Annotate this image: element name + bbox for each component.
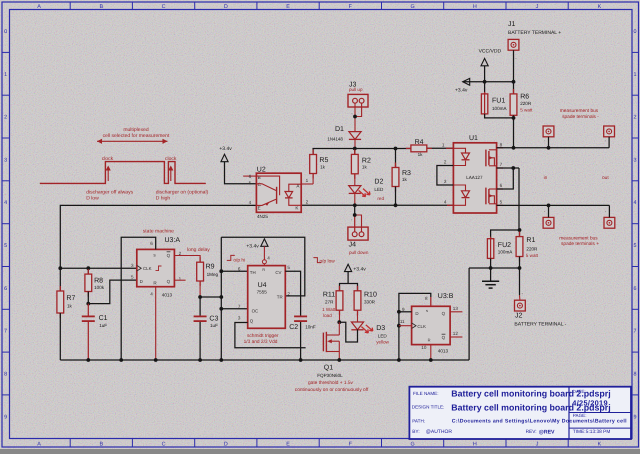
resistor R4	[406, 147, 411, 149]
svg-text:100mA: 100mA	[492, 106, 507, 111]
clock waveform	[40, 162, 206, 184]
svg-text:Q: Q	[442, 311, 446, 316]
svg-text:3: 3	[634, 157, 637, 163]
resistor R1	[519, 230, 521, 237]
svg-text:6: 6	[4, 286, 7, 292]
svg-text:D1: D1	[335, 126, 344, 133]
svg-text:4: 4	[150, 292, 153, 297]
svg-text:D: D	[415, 311, 418, 316]
wire VCC rail	[463, 81, 514, 83]
wire U3:B CLK pin	[399, 325, 412, 327]
svg-text:continuously on or continuousl: continuously on or continuously off	[295, 387, 369, 393]
wire U4 Q to Q1 gate	[235, 323, 306, 348]
svg-text:discharger off always: discharger off always	[86, 189, 133, 195]
svg-text:gate threshold + 1.5v: gate threshold + 1.5v	[308, 380, 354, 386]
svg-text:R1: R1	[526, 237, 535, 244]
power +3.4v left arrow	[463, 78, 470, 85]
svg-text:CLK: CLK	[417, 324, 426, 329]
svg-text:3: 3	[131, 263, 134, 268]
svg-text:2: 2	[306, 199, 309, 204]
wire R4 to U1 pin1	[427, 147, 454, 149]
U1 internal led lower	[453, 185, 465, 191]
svg-text:3: 3	[238, 316, 241, 321]
svg-text:2: 2	[287, 292, 290, 297]
svg-text:1uF: 1uF	[210, 323, 218, 328]
wire K bus U2 to U1 pin4	[301, 204, 453, 206]
svg-text:J2: J2	[515, 312, 523, 319]
svg-text:J4: J4	[349, 242, 357, 249]
op-amp U2 optocoupler 4N25 box	[256, 173, 301, 212]
svg-text:LED: LED	[374, 187, 384, 192]
svg-text:measurement bus: measurement bus	[559, 235, 598, 241]
svg-text:TR: TR	[277, 294, 283, 299]
svg-text:R10: R10	[364, 292, 377, 299]
svg-text:9: 9	[4, 414, 7, 420]
clock waveform arrow 1	[107, 168, 109, 181]
wire ground rail	[60, 359, 469, 361]
svg-text:D high: D high	[156, 196, 171, 202]
capacitor C2	[294, 316, 307, 318]
svg-text:6: 6	[249, 174, 252, 179]
wire CLK bus	[60, 267, 137, 269]
svg-text:C2: C2	[289, 324, 298, 331]
svg-text:FU2: FU2	[498, 242, 511, 249]
svg-text:E: E	[286, 4, 290, 10]
connector J4 pull down	[348, 227, 368, 240]
svg-text:state machine: state machine	[143, 228, 174, 234]
svg-text:D3: D3	[376, 325, 385, 332]
title block	[409, 387, 631, 439]
resistor R2	[354, 149, 356, 155]
svg-text:CLK: CLK	[143, 266, 152, 271]
svg-text:5: 5	[4, 243, 7, 249]
wire trunk pin7 to FU2	[518, 168, 520, 230]
svg-text:D: D	[140, 279, 143, 284]
svg-text:A: A	[37, 442, 41, 448]
terminal spade lower left	[543, 217, 554, 228]
svg-text:D: D	[224, 442, 228, 448]
svg-text:0: 0	[4, 29, 7, 35]
svg-text:R5: R5	[319, 157, 328, 164]
svg-text:G: G	[410, 442, 414, 448]
svg-text:4/25/2019: 4/25/2019	[572, 399, 608, 408]
wire R10 to D3	[357, 310, 359, 322]
svg-text:4013: 4013	[438, 349, 449, 354]
clock waveform arrow 2	[170, 168, 172, 181]
svg-text:1/3 and 2/3 Vdd: 1/3 and 2/3 Vdd	[244, 339, 278, 345]
terminal spade upper right	[604, 126, 615, 137]
diode D1 1N4148	[349, 132, 361, 140]
J4 pin wires	[354, 205, 356, 215]
svg-text:VCC/VDD: VCC/VDD	[479, 49, 502, 55]
wire U3:B D pin	[399, 311, 412, 313]
svg-text:5:13:38 PM: 5:13:38 PM	[586, 429, 611, 435]
wire R9 to C3 junction	[199, 281, 201, 297]
svg-text:8: 8	[4, 372, 7, 378]
svg-text:1: 1	[442, 143, 445, 148]
svg-text:LAA127: LAA127	[466, 175, 483, 180]
svg-text:11: 11	[400, 319, 405, 324]
resistor R10	[357, 286, 359, 291]
svg-text:J: J	[536, 442, 539, 448]
svg-text:OC: OC	[252, 308, 259, 313]
svg-text:BATTERY TERMINAL +: BATTERY TERMINAL +	[508, 30, 561, 36]
svg-text:pull up: pull up	[349, 87, 363, 92]
svg-text:U2: U2	[257, 166, 266, 173]
svg-text:4: 4	[249, 200, 252, 205]
terminal spade lower right	[604, 217, 615, 228]
wire U3:A R pin to rail	[155, 287, 157, 360]
wire trunk to TH	[221, 270, 247, 272]
svg-text:U4: U4	[258, 282, 267, 289]
svg-text:clock: clock	[102, 156, 114, 162]
svg-text:K: K	[598, 442, 602, 448]
wire R11 to drain node	[339, 310, 341, 322]
diode D2 LED red	[349, 186, 361, 194]
svg-text:1: 1	[306, 178, 309, 183]
svg-text:D low: D low	[86, 196, 99, 202]
svg-text:PAGE:: PAGE:	[573, 413, 587, 418]
svg-text:Q: Q	[442, 335, 446, 340]
svg-text:7: 7	[238, 304, 241, 309]
wire measurement bus lower	[497, 204, 610, 206]
svg-text:@AUTHOR: @AUTHOR	[426, 429, 453, 435]
svg-text:1Meg: 1Meg	[207, 272, 219, 277]
wire U3:A S pin to rail	[121, 237, 156, 360]
J3 pin wires	[354, 103, 356, 120]
U1 internal led upper	[453, 148, 465, 153]
wire FU2 R1 top join	[491, 230, 520, 239]
U1 pin stubs	[497, 147, 503, 149]
svg-text:+3.4v: +3.4v	[353, 267, 366, 273]
U2 pin A wire to R5	[301, 183, 313, 185]
svg-text:5: 5	[249, 181, 252, 186]
svg-text:3: 3	[4, 157, 7, 163]
flip-flop U3:A 4013 box	[137, 249, 175, 286]
node D1 R2 junction	[353, 147, 357, 151]
wire FU1 R6 join	[485, 114, 514, 118]
svg-text:J: J	[536, 4, 539, 10]
svg-text:220R: 220R	[526, 247, 538, 252]
wire FU2 bottom rail	[490, 258, 492, 268]
wire measurement bus out upper	[497, 147, 609, 149]
svg-text:R6: R6	[520, 94, 529, 101]
svg-text:8: 8	[425, 296, 428, 301]
svg-text:2: 2	[444, 160, 447, 165]
svg-text:REV:: REV:	[526, 429, 537, 435]
node D2 J4 junction	[353, 203, 357, 207]
svg-text:330R: 330R	[364, 300, 376, 305]
wire R8 to U3A D pin	[88, 280, 137, 304]
svg-text:5: 5	[287, 265, 290, 270]
svg-text:E: E	[258, 205, 261, 210]
svg-text:13: 13	[453, 306, 459, 311]
wire D1 to bus	[354, 139, 356, 149]
svg-text:1k: 1k	[362, 165, 368, 170]
connector J3 pull up	[348, 94, 368, 107]
svg-text:LED: LED	[378, 334, 388, 339]
svg-text:100k: 100k	[94, 285, 105, 290]
svg-text:5 watt: 5 watt	[526, 253, 539, 258]
wire U4 trunk	[220, 237, 222, 360]
terminal spade upper left	[543, 126, 554, 137]
wire D2 to bus	[354, 193, 356, 205]
svg-text:Q: Q	[167, 279, 171, 284]
svg-text:7: 7	[634, 329, 637, 335]
svg-text:1k: 1k	[67, 303, 73, 308]
wire J1 down	[513, 50, 515, 82]
resistor R11	[339, 286, 341, 291]
svg-text:4: 4	[634, 200, 637, 206]
svg-text:PATH:: PATH:	[412, 418, 425, 423]
svg-text:1k: 1k	[402, 177, 408, 182]
wire J3 to D1	[354, 120, 356, 132]
svg-text:1k: 1k	[418, 152, 424, 157]
svg-text:C: C	[162, 442, 166, 448]
svg-text:6: 6	[150, 241, 153, 246]
U1 pin 2-3 link wire	[437, 166, 454, 186]
ground symbol	[490, 268, 492, 281]
svg-text:U1: U1	[469, 135, 478, 142]
svg-text:schmidt trigger: schmidt trigger	[247, 333, 279, 339]
wire trunk to OC	[221, 308, 247, 310]
U1 mosfet lower	[485, 188, 487, 205]
U1 pin 1 stub	[446, 147, 453, 149]
svg-text:CV: CV	[275, 270, 281, 275]
svg-text:BY:: BY:	[412, 429, 419, 435]
wire trunk to TR	[221, 237, 304, 296]
U3:B Q stub	[450, 311, 462, 313]
svg-text:Q: Q	[167, 253, 171, 258]
svg-text:C:\Documents and Settings\Leno: C:\Documents and Settings\Lenovo\My Docu…	[452, 418, 627, 424]
svg-text:D: D	[224, 4, 228, 10]
node R3 top	[394, 147, 398, 151]
svg-text:1: 1	[634, 72, 637, 78]
svg-text:in: in	[544, 175, 548, 181]
svg-text:5: 5	[131, 275, 134, 280]
svg-text:12: 12	[453, 331, 459, 336]
svg-text:1 Watt: 1 Watt	[322, 307, 336, 312]
svg-text:R: R	[428, 337, 431, 342]
ruler ticks	[69, 2, 71, 10]
svg-text:G: G	[410, 4, 414, 10]
svg-text:o/p hi: o/p hi	[233, 257, 245, 263]
svg-text:B: B	[99, 4, 103, 10]
svg-text:5 watt: 5 watt	[520, 107, 533, 112]
annotation multiplexed arrow	[97, 140, 168, 142]
svg-text:C3: C3	[209, 316, 218, 323]
svg-text:1: 1	[4, 72, 7, 78]
resistor R5	[312, 150, 314, 155]
svg-text:pull down: pull down	[349, 250, 369, 255]
svg-text:R4: R4	[415, 139, 424, 146]
svg-text:B: B	[99, 442, 103, 448]
svg-text:C1: C1	[99, 315, 108, 322]
node R3 bottom	[394, 203, 398, 207]
svg-text:R: R	[262, 268, 265, 272]
resistor R7	[59, 268, 61, 291]
resistor R9	[199, 257, 201, 262]
svg-text:@REV: @REV	[539, 429, 555, 435]
svg-text:5: 5	[634, 243, 637, 249]
wire U2 collector from +3.4v	[225, 162, 257, 184]
svg-text:J1: J1	[508, 21, 516, 28]
resistor R6	[513, 82, 515, 94]
wire R2 to D2	[354, 174, 356, 186]
svg-text:E: E	[286, 442, 290, 448]
svg-text:C: C	[162, 4, 166, 10]
label o/p hi	[227, 255, 235, 260]
wire junction to trunk	[200, 296, 221, 298]
svg-text:2: 2	[634, 115, 637, 121]
U1 mosfet upper	[485, 150, 487, 167]
wire D3 cathode to drain node	[339, 322, 357, 342]
U3:B Qbar stub	[450, 336, 462, 338]
svg-text:1k: 1k	[320, 164, 326, 169]
svg-text:BATTERY TERMINAL -: BATTERY TERMINAL -	[514, 321, 566, 327]
svg-text:red: red	[377, 196, 384, 201]
svg-text:27R: 27R	[325, 300, 334, 305]
svg-text:R9: R9	[206, 264, 215, 271]
svg-text:out: out	[602, 175, 609, 181]
svg-text:measurement bus: measurement bus	[560, 108, 599, 114]
svg-text:U3:A: U3:A	[165, 237, 181, 244]
fuse FU1	[484, 82, 486, 94]
svg-text:FQP30N60L: FQP30N60L	[317, 373, 343, 378]
op-amp U1 LAA127 solid state relay box	[453, 143, 496, 213]
svg-text:Q: Q	[250, 318, 254, 323]
svg-text:spade terminals -: spade terminals -	[562, 114, 599, 120]
svg-text:+3.4v: +3.4v	[455, 87, 468, 93]
svg-text:Q1: Q1	[324, 364, 333, 371]
svg-text:yellow: yellow	[376, 340, 389, 345]
wire U3:B tie rail	[399, 293, 431, 360]
svg-text:spade terminals +: spade terminals +	[561, 241, 599, 247]
svg-text:R8: R8	[94, 278, 103, 285]
svg-text:7: 7	[4, 329, 7, 335]
node R8 C1 junction	[86, 302, 90, 306]
op-amp U4 7555 timer box	[248, 266, 286, 329]
wire CV to C2	[285, 271, 300, 315]
svg-text:TIME:: TIME:	[573, 429, 586, 435]
svg-text:R7: R7	[66, 295, 75, 302]
svg-text:U3:B: U3:B	[438, 293, 454, 300]
svg-text:6: 6	[634, 286, 637, 292]
svg-text:load: load	[323, 313, 332, 318]
svg-text:H: H	[473, 4, 477, 10]
svg-text:+3.4v: +3.4v	[246, 243, 259, 249]
svg-text:1: 1	[179, 277, 182, 282]
svg-text:4013: 4013	[162, 293, 173, 298]
svg-text:cell selected for measurement: cell selected for measurement	[103, 133, 170, 139]
wire U1 pin7 pin6 link	[497, 167, 519, 169]
svg-text:TH: TH	[250, 270, 256, 275]
wire U3:B R pin to rail	[430, 345, 432, 360]
svg-text:9: 9	[634, 414, 637, 420]
svg-text:100mA: 100mA	[498, 249, 513, 254]
svg-text:4: 4	[4, 200, 7, 206]
svg-text:DESIGN TITLE:: DESIGN TITLE:	[412, 405, 445, 410]
svg-text:7: 7	[500, 162, 503, 167]
svg-text:long delay: long delay	[187, 247, 210, 253]
capacitor C3	[199, 297, 201, 316]
svg-text:clock: clock	[165, 156, 177, 162]
svg-text:+3.4v: +3.4v	[219, 146, 232, 152]
resistor R8	[87, 268, 89, 274]
svg-text:4N25: 4N25	[257, 214, 268, 219]
wire top bus R5 to R4	[313, 149, 411, 155]
fuse FU2	[487, 239, 493, 259]
svg-text:1uF: 1uF	[99, 323, 107, 328]
svg-text:6: 6	[238, 267, 241, 272]
svg-text:5: 5	[500, 200, 503, 205]
svg-text:D2: D2	[374, 178, 383, 185]
node Q1 source rail	[337, 358, 341, 362]
wire U3:A Qbar to R9	[174, 256, 200, 263]
svg-text:6: 6	[500, 183, 503, 188]
U2 internal led	[289, 184, 301, 191]
svg-text:FU1: FU1	[492, 98, 505, 105]
capacitor C1	[87, 304, 89, 316]
svg-text:10: 10	[421, 345, 427, 350]
wire rail up to FU2 line	[468, 268, 470, 360]
U2 pin B stub	[243, 175, 256, 177]
svg-text:4: 4	[444, 199, 447, 204]
svg-text:R2: R2	[362, 157, 371, 164]
svg-text:9: 9	[402, 307, 405, 312]
svg-text:7555: 7555	[257, 289, 268, 294]
svg-text:1N4148: 1N4148	[327, 137, 343, 142]
svg-text:0: 0	[634, 29, 637, 35]
resistor R3	[395, 149, 397, 168]
svg-text:8: 8	[634, 372, 637, 378]
connector J2 battery terminal -	[515, 300, 526, 311]
svg-text:FILE NAME:: FILE NAME:	[413, 391, 439, 396]
U3:A Q stub	[174, 279, 185, 281]
svg-text:3: 3	[444, 179, 447, 184]
svg-text:220R: 220R	[520, 101, 532, 106]
wire U2 emitter bus	[60, 205, 256, 268]
diode D3 LED yellow	[351, 322, 363, 330]
svg-text:10nF: 10nF	[305, 324, 316, 329]
svg-text:8: 8	[500, 143, 503, 148]
svg-text:Battery cell monitoring board: Battery cell monitoring board 2.pdsprj	[451, 389, 610, 399]
svg-text:R11: R11	[323, 292, 335, 299]
svg-text:discharger on (optional): discharger on (optional)	[156, 189, 209, 195]
label o/p low	[313, 258, 321, 263]
svg-text:4: 4	[267, 256, 270, 261]
svg-text:K: K	[598, 4, 602, 10]
svg-text:H: H	[473, 442, 477, 448]
flip-flop U3:B 4013 box	[412, 306, 451, 344]
svg-text:o/p low: o/p low	[320, 259, 336, 265]
transistor Q1 FQP30N60L	[322, 333, 324, 352]
svg-text:A: A	[37, 4, 41, 10]
wire R1 to J2	[519, 257, 521, 296]
svg-text:s: s	[426, 308, 428, 313]
svg-text:2: 2	[4, 115, 7, 121]
U2 phototransistor	[256, 184, 276, 191]
